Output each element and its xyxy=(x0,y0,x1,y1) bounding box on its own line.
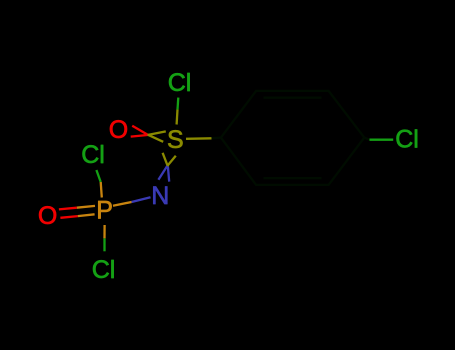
bond Cl-P upper-left (green half) xyxy=(96,170,100,182)
double bond P=O line1 orange half xyxy=(77,206,95,208)
double bond P=O line2 red half xyxy=(60,216,77,218)
double bond S=O line1 olive half xyxy=(148,135,164,142)
svg-text:P: P xyxy=(96,197,113,225)
double bond S=N line2 blue half xyxy=(158,166,167,180)
double bond S=O line2 olive half xyxy=(148,131,166,135)
bond ring-Cl (green half) xyxy=(370,139,394,141)
double bond S=O line2 red half xyxy=(131,135,148,137)
bond Cl-P upper-left (orange half) xyxy=(101,182,102,198)
double bond P=O line2 orange half xyxy=(78,214,95,216)
double bond S=N line1 olive half xyxy=(163,153,168,167)
svg-text:Cl: Cl xyxy=(395,126,419,154)
bond P-Cl bottom (orange half) xyxy=(103,225,105,238)
benzene ring (dark green skeleton) xyxy=(221,91,364,185)
bond Cl-S vertical (green half) xyxy=(176,98,179,110)
double bond S=O line1 red half xyxy=(132,126,147,135)
svg-text:Cl: Cl xyxy=(168,69,192,97)
svg-text:N: N xyxy=(151,182,169,210)
double bond P=O line1 red half xyxy=(59,208,77,210)
bond N-P (orange half) xyxy=(113,202,132,206)
svg-text:O: O xyxy=(38,202,57,230)
bond S-ring (olive half) xyxy=(186,137,212,140)
bond P-Cl bottom (green half) xyxy=(103,238,105,251)
bond ring-Cl (ring half) xyxy=(364,138,369,140)
bond S-ring (ring half) xyxy=(212,136,221,139)
double bond S=N line2 olive half xyxy=(167,156,176,166)
svg-text:Cl: Cl xyxy=(81,141,105,169)
svg-text:O: O xyxy=(109,116,128,144)
double bond S=N line1 blue half xyxy=(168,167,169,182)
svg-text:S: S xyxy=(167,126,184,154)
bond N-P (blue half) xyxy=(132,197,151,202)
svg-text:Cl: Cl xyxy=(92,256,116,284)
bond Cl-S vertical (olive half) xyxy=(175,110,178,125)
